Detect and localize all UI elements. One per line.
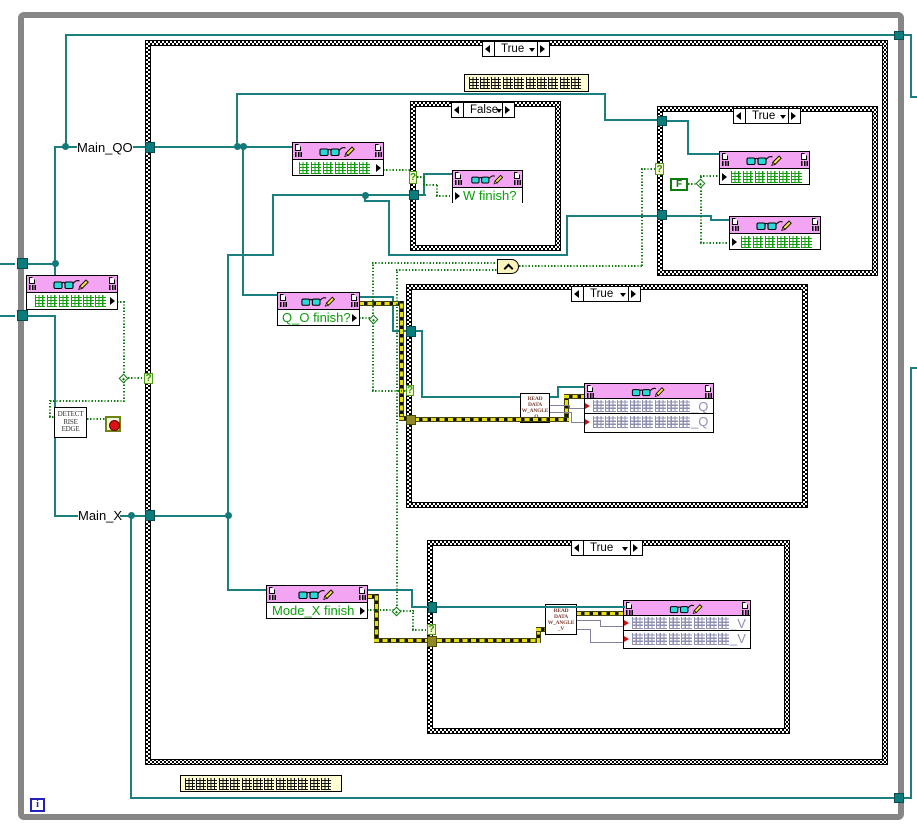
wire: Main_QO stub from left edge <box>0 263 15 265</box>
boolean wire: Q_O finish bool out <box>359 317 371 319</box>
case structure: outer True case <box>145 40 888 765</box>
wire: Q_O finish output <box>359 296 394 298</box>
boolean wire: drop x50 <box>49 400 51 417</box>
boolean wire: y630 into bottom selector <box>412 629 427 631</box>
wire: drop x412 <box>411 589 413 608</box>
free label: 获取平台相位拟合系数 <box>464 74 589 92</box>
boolean wire: drop x123 <box>123 301 125 376</box>
node label: Main_QO <box>77 140 133 155</box>
junction diamond: F branch <box>696 179 706 189</box>
wire: riser x66 to top rail <box>65 34 67 148</box>
boolean wire: y243 into lower VI <box>700 242 730 244</box>
wire: into upper 计算平台相位 <box>687 153 720 155</box>
wire: into Q_O finish VI <box>242 294 278 296</box>
wire: stub enter right y368 <box>910 367 917 369</box>
AND gate <box>497 259 519 274</box>
wire: into Mode_X finish VI <box>227 589 267 591</box>
boolean wire: y270 into AND input 2 <box>396 269 497 271</box>
selector terminal: TR case <box>655 163 664 175</box>
wire: drop x421 <box>421 330 423 398</box>
subVI: W finish? <box>452 170 523 203</box>
wire: branch jog down <box>364 194 366 202</box>
wire: into W finish VI <box>423 173 453 175</box>
tunnel: False case left <box>409 190 419 200</box>
subVI: Mode_X finish <box>266 585 368 619</box>
gray wire: READ V to row3 <box>576 629 591 630</box>
wire: branch up x237 <box>236 93 238 148</box>
case selector label: outer True <box>482 41 550 57</box>
case structure: False case <box>410 101 561 251</box>
wire: stub exit right y97 <box>910 96 917 98</box>
wire: drop x605 <box>604 93 606 121</box>
error wire: y396 into VI Q <box>564 394 585 399</box>
boolean wire: drop to DETECT path <box>123 382 125 402</box>
error wire: elbow into middle tunnel <box>399 416 409 421</box>
boolean wire: F constant out <box>688 183 699 185</box>
boolean wire: into W finish <box>436 195 453 197</box>
wire: riser x273 <box>272 194 274 256</box>
error wire: y641 into bottom tunnel <box>374 638 428 643</box>
boolean wire: y176 into upper VI <box>700 175 720 177</box>
wire: Main_QO inside case to VI 频率转换完成 <box>155 146 292 148</box>
wire: drop x393 <box>392 296 394 332</box>
gray wire: READ Q to row3 <box>549 412 572 413</box>
junction diamond: Mode_X bool <box>392 607 402 617</box>
error wire: riser x539 <box>536 627 541 643</box>
wire: y331 into middle tunnel <box>392 330 408 332</box>
boolean wire: y391 into middle selector <box>372 390 407 392</box>
junction: Main_QO at label <box>62 143 69 150</box>
selector terminal: outer case <box>144 373 153 384</box>
case selector label: False <box>451 102 515 118</box>
junction: Main_QO branch down <box>240 143 247 150</box>
gray wire: READ V to row2 <box>576 620 601 621</box>
boolean wire: DETECT EDGE to stop button <box>87 418 105 420</box>
READ DATA W_ANGLE _V node <box>545 604 577 635</box>
wire: Main_X drop x228 to Mode_X <box>227 515 229 591</box>
boolean wire: riser x397 to AND <box>396 270 398 609</box>
global VI: 平台相位系数_V <box>623 600 751 649</box>
error wire: y630 into READ V box <box>536 627 546 632</box>
subVI: 计算平台相位 (left) <box>26 275 118 310</box>
wire: y387 into 3-row VI Q <box>557 386 585 388</box>
wire: Main_QO tunnel to junction <box>26 263 56 265</box>
wire: drop x389 <box>388 200 390 256</box>
case structure: top-right True case <box>657 106 878 276</box>
boolean wire: y169 into TR selector <box>641 168 656 170</box>
gray wire: READ Q to row2 <box>549 405 570 406</box>
wire: y195 rail to False tunnel <box>272 194 411 196</box>
boolean wire: drop x373 to selector <box>372 322 374 391</box>
boolean wire: riser x642 <box>641 168 643 266</box>
subVI: 计算平台相位 (TR upper) <box>719 151 810 185</box>
case structure: middle True case <box>406 284 808 508</box>
wire: middle tunnel inside jog <box>415 330 423 332</box>
loop iteration terminal i <box>30 798 45 812</box>
subVI: 频率转换完成 <box>292 142 384 176</box>
wire: TR tunnel to lower VI jog <box>667 215 712 217</box>
wire: into loop right bottom tunnel <box>903 797 912 799</box>
junction: Main_QO left <box>52 260 59 267</box>
wire: y607 across bottom case to 3-row VI V <box>437 606 625 608</box>
boolean wire: inside False drop 1 <box>423 176 425 185</box>
error wire: riser x567 <box>564 394 569 422</box>
tunnel: TR case upper <box>657 116 667 126</box>
boolean wire: into DETECT EDGE <box>49 416 55 418</box>
wire: Main_X dash to label <box>54 515 78 517</box>
wire: riser x424 in False <box>423 173 425 196</box>
wire: jog down x710 <box>710 215 712 221</box>
wire: branch down x243 to Q_O finish <box>242 146 244 296</box>
junction diamond: Q_O bool <box>369 315 379 325</box>
wire: Main_X dash label to dot <box>120 515 146 517</box>
tunnel: bottom case teal <box>428 602 437 613</box>
error wire: Q_O finish out <box>359 301 401 306</box>
junction: y195 branch <box>362 192 369 199</box>
wire: y216 into TR lower tunnel <box>566 215 659 217</box>
wire: Main_QO riser x55 <box>54 146 56 265</box>
global VI: 平台相位系数_Q <box>584 383 714 433</box>
junction: Main_X left <box>128 512 135 519</box>
wire: jog right y201 <box>364 200 390 202</box>
error wire: drop x400 <box>399 301 404 419</box>
wire: inside TR case from tunnel <box>667 120 689 122</box>
tunnel: loop left Main_X <box>17 310 28 321</box>
tunnel: loop right bottom <box>894 793 904 803</box>
tunnel: loop right top <box>894 31 904 40</box>
boolean wire: 计算平台相位 out <box>117 301 125 303</box>
junction: Main_QO branch up <box>234 143 241 150</box>
wire: Main_QO jog to x66 <box>54 146 67 148</box>
tunnel: middle case teal <box>406 326 416 337</box>
boolean wire: riser x373 to AND <box>372 263 374 317</box>
wire: dash right of Main_QO label to tunnel <box>133 146 145 148</box>
wire: riser x566 <box>566 215 568 256</box>
boolean wire: into outer case selector <box>128 377 145 379</box>
READ DATA W_ANGLE _Q node <box>520 393 550 423</box>
boolean wire: y263 into AND input 1 <box>372 262 497 264</box>
boolean wire: inside False drop 2 <box>436 184 438 196</box>
case selector label: top-right True <box>733 108 801 124</box>
tunnel: bottom case error <box>427 636 437 647</box>
error wire: y641 inside bottom case <box>437 638 541 643</box>
wire: into lower 计算平台相位 <box>710 219 730 221</box>
case selector label: bottom True <box>571 540 643 556</box>
junction diamond: left selector branch <box>119 374 129 384</box>
wire: y607 into bottom tunnel <box>411 606 429 608</box>
boolean wire: AND output y266 <box>519 265 643 267</box>
selector terminal: bottom case <box>427 624 436 635</box>
tunnel: loop left Main_QO <box>17 258 28 269</box>
case structure: bottom True case <box>427 540 790 734</box>
subVI: 计算平台相位 (TR lower) <box>729 216 821 250</box>
boolean wire: 频率转换完成 out to selector <box>383 169 410 171</box>
boolean wire: Mode_X bool out <box>367 609 394 611</box>
tunnel: TR case lower <box>657 210 667 220</box>
junction: Main_X at x228 <box>225 512 232 519</box>
wire: top rail y35 <box>65 34 895 36</box>
subVI: Q_O finish? <box>277 292 360 326</box>
tunnel: case left Main_QO <box>145 142 155 153</box>
tunnel: middle case error <box>406 415 416 425</box>
selector terminal: False case <box>409 171 417 184</box>
boolean wire: drop x413 <box>412 610 414 630</box>
stop button terminal <box>105 416 121 432</box>
wire: Main_X inside case <box>155 515 230 517</box>
wire: drop x688 <box>687 120 689 155</box>
wire: READ box to riser <box>549 396 559 398</box>
wire: bottom rail y798 <box>130 797 895 799</box>
wire: riser x558 <box>557 386 559 398</box>
wire: inside False case tunnel jog <box>419 194 426 196</box>
wire: y120 into top-right case tunnel <box>604 119 658 121</box>
wire: y254 rail to x566 <box>388 254 568 256</box>
boolean wire: inside False jog 1 <box>417 176 425 178</box>
wire: outer riser x911 top <box>910 34 912 98</box>
error wire: Mode_X out <box>367 594 379 599</box>
free label: 本循环用来计算平台相位系数 <box>180 775 342 792</box>
wire: y94 rail to x605 <box>236 93 606 95</box>
error wire: READ V box to VI V <box>576 611 624 616</box>
error wire: drop x376 <box>374 594 379 643</box>
wire: outer riser x911 bottom <box>910 367 912 799</box>
wire: y254 jog <box>227 254 274 256</box>
wire: Mode_X output <box>367 589 413 591</box>
wire: Main_X tunnel to riser <box>26 315 56 317</box>
wire: Main_X stub from left edge <box>0 315 15 317</box>
boolean constant F <box>670 178 688 191</box>
case selector label: middle True <box>571 286 641 302</box>
boolean wire: y401 left <box>50 400 124 402</box>
error wire: y420 inside middle case <box>414 417 569 422</box>
DETECT RISE EDGE node <box>54 407 87 438</box>
wire: dash left of Main_QO label <box>67 146 77 148</box>
selector terminal: middle case <box>406 385 414 396</box>
boolean wire: diamond right jog <box>400 610 414 612</box>
boolean wire: drop to lower VI <box>700 186 702 243</box>
tunnel: case left Main_X <box>145 510 155 521</box>
wire: Main_X branch down x131 <box>130 515 132 799</box>
boolean wire: inside False jog 2 <box>423 184 437 186</box>
wire: loop right top tunnel out <box>903 34 912 36</box>
wire: Main_X drop x55 <box>54 315 56 517</box>
node label: Main_X <box>78 508 122 523</box>
wire: Main_X riser x228 up <box>227 254 229 517</box>
boolean wire: riser to upper VI <box>700 175 702 181</box>
wire: Main_QO drop to subVI top <box>54 263 56 276</box>
wire: y397 to READ DATA Q box <box>421 396 521 398</box>
